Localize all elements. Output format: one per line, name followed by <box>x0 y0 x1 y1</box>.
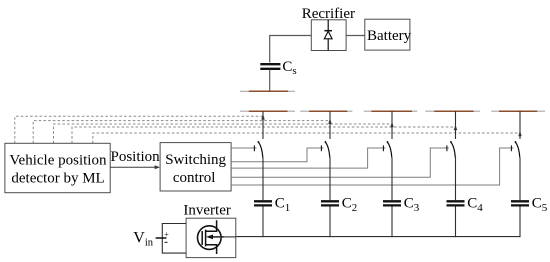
sense arrow at branch 2 <box>328 118 332 124</box>
transmitter coil bar 2 <box>300 110 352 112</box>
transmitter coil bar 5 <box>491 110 545 112</box>
capacitor Cs <box>260 64 280 69</box>
control line 5 <box>231 148 513 185</box>
rectifier U1 box <box>311 20 346 51</box>
MOSFET Q1 <box>198 220 225 254</box>
battery B1 box <box>365 19 410 50</box>
control line 1 <box>231 147 256 149</box>
wire C3 to bus <box>391 207 393 238</box>
svg-text:control: control <box>173 170 216 186</box>
transmitter coil bar 4 <box>425 110 480 112</box>
wire from rectifier left to Cs <box>270 36 311 63</box>
control line 2 <box>231 148 323 162</box>
dashed sense line 1 <box>15 116 263 143</box>
wire Cs to receiver coil <box>269 70 271 91</box>
wire C2 to bus <box>329 207 331 238</box>
wire switch3 to C3 <box>391 158 393 201</box>
capacitor C1 <box>254 201 272 205</box>
svg-text:Vehicle position: Vehicle position <box>9 153 107 169</box>
dashed sense line 2 <box>33 121 330 144</box>
inverter output wire <box>220 236 236 238</box>
wire C4 to bus <box>455 207 457 238</box>
wire switch5 to C5 <box>519 158 521 201</box>
wire C5 to bus <box>519 207 521 238</box>
switch S2 <box>321 111 330 157</box>
svg-text:detector by ML: detector by ML <box>11 170 104 186</box>
switch S5 <box>511 111 520 157</box>
svg-text:Inverter: Inverter <box>183 203 230 219</box>
inverter box <box>186 218 236 257</box>
wire switch4 to C4 <box>455 158 457 201</box>
capacitor C5 <box>511 201 529 205</box>
svg-text:Battery: Battery <box>367 28 412 44</box>
dashed sense line 4 <box>72 127 456 143</box>
wire C1 to bus <box>262 207 264 238</box>
switch S4 <box>447 111 456 157</box>
capacitor C2 <box>321 201 339 205</box>
switch S1 <box>254 111 263 157</box>
svg-text:Position: Position <box>111 149 161 165</box>
capacitor C3 <box>383 201 401 205</box>
bottom bus wire <box>236 236 520 238</box>
sense arrow at branch 5 <box>518 131 522 137</box>
dashed sense line 5 <box>93 133 520 143</box>
vehicle position detector box <box>5 143 110 192</box>
switching control box <box>160 143 231 191</box>
Vin loop wire <box>162 224 186 254</box>
transmitter coil bar 1 <box>240 110 295 112</box>
dashed sense line 3 <box>54 124 393 143</box>
position wire with arrow <box>110 165 160 169</box>
switch S3 <box>383 111 392 157</box>
capacitor C4 <box>447 201 465 205</box>
sense arrow at branch 1 <box>261 114 265 120</box>
transmitter coil bar 3 <box>364 110 417 112</box>
wire switch1 to C1 <box>262 158 264 201</box>
control line 4 <box>231 148 449 177</box>
diode D1 <box>324 20 332 51</box>
svg-text:Switching: Switching <box>165 152 226 168</box>
wire rectifier to battery <box>346 35 365 37</box>
svg-text:+: + <box>164 230 169 239</box>
sense arrow at branch 4 <box>454 125 458 131</box>
control line 3 <box>231 148 385 168</box>
receiver coil bar <box>240 90 295 92</box>
sense arrow at branch 3 <box>390 122 394 128</box>
Vin source symbol <box>156 230 170 243</box>
svg-text:Recrifier: Recrifier <box>302 6 355 22</box>
wire switch2 to C2 <box>329 158 331 201</box>
